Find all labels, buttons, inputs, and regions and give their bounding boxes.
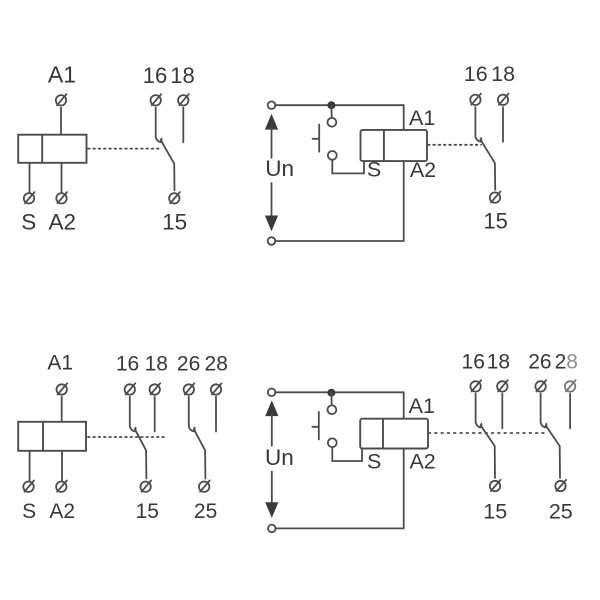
svg-text:18: 18	[145, 353, 168, 376]
contact 2 fixed lead 28	[215, 397, 217, 432]
push button S contact top	[328, 405, 337, 414]
contact moving blade 15	[161, 140, 175, 190]
arrow up (Un)	[265, 114, 278, 130]
supply terminal top	[268, 101, 276, 109]
push button actuator	[312, 412, 319, 440]
terminal 18	[497, 380, 508, 391]
wire coil to A2	[61, 163, 63, 192]
svg-text:16: 16	[143, 63, 167, 88]
terminal A1	[57, 383, 68, 394]
svg-text:25: 25	[194, 500, 217, 523]
wire junction to push button	[330, 393, 332, 406]
wire top rail to coil A1	[403, 105, 405, 130]
svg-text:15: 15	[483, 500, 507, 524]
svg-text:16: 16	[464, 62, 488, 86]
relay coil K2	[18, 422, 86, 451]
svg-text:15: 15	[162, 209, 187, 234]
relay coil K1 (right)	[361, 130, 428, 161]
wire coil to S	[29, 163, 31, 192]
terminal 26	[535, 380, 546, 391]
terminal S	[24, 192, 35, 203]
contact fixed lead 18	[502, 107, 504, 142]
terminal 16	[125, 383, 136, 394]
contact moving blade 15	[480, 139, 495, 189]
wire coil to A2	[61, 451, 63, 481]
push button actuator	[313, 124, 320, 151]
wire coil A2 to bottom rail	[403, 161, 405, 241]
terminal 15	[169, 192, 180, 203]
relay coil K1	[18, 135, 86, 163]
contact fixed lead 16	[475, 107, 481, 142]
contact 2 fixed lead 26	[189, 397, 195, 432]
supply terminal bottom	[268, 237, 276, 245]
terminal 25	[555, 480, 566, 491]
wire arrow to Un	[271, 127, 273, 158]
terminal S	[23, 481, 34, 492]
contact 1 fixed lead 18	[154, 397, 156, 432]
svg-text:S: S	[367, 158, 381, 182]
wire top supply rail	[275, 104, 404, 106]
svg-text:18: 18	[491, 62, 515, 86]
svg-text:16: 16	[462, 350, 485, 373]
svg-text:A2: A2	[409, 449, 435, 473]
svg-text:18: 18	[170, 63, 194, 88]
wire bottom supply rail	[275, 527, 403, 529]
arrow down (Un)	[265, 502, 278, 518]
relay coil K2 (right)	[360, 419, 428, 449]
contact 1 fixed lead 18	[501, 394, 503, 429]
svg-text:26: 26	[528, 350, 551, 373]
wire A1 to coil	[60, 108, 62, 135]
svg-text:A1: A1	[47, 351, 73, 374]
wire bottom supply rail	[275, 240, 404, 242]
terminal 15	[490, 480, 501, 491]
junction node	[327, 101, 335, 109]
terminal 28	[565, 380, 576, 391]
wire A1 to coil	[61, 397, 63, 422]
push button S contact top	[328, 118, 337, 127]
svg-text:16: 16	[116, 353, 139, 376]
contact 1 fixed lead 16	[476, 394, 482, 428]
terminal 26	[184, 383, 195, 394]
terminal A2	[56, 481, 67, 492]
svg-text:18: 18	[487, 350, 510, 373]
svg-text:A1: A1	[48, 62, 76, 88]
wire top rail to coil A1	[403, 392, 405, 418]
contact 1 moving blade 15	[135, 429, 147, 479]
wire coil A2 to bottom rail	[403, 449, 405, 529]
svg-text:28: 28	[205, 353, 228, 376]
terminal 15	[490, 191, 501, 202]
svg-text:Un: Un	[265, 445, 294, 470]
wire arrow to Un	[271, 414, 273, 446]
arrow down (Un)	[265, 216, 278, 232]
contact 2 moving blade 25	[546, 425, 560, 478]
mechanical linkage (dotted)	[88, 148, 161, 150]
supply terminal top	[268, 389, 276, 397]
junction node	[327, 389, 335, 397]
svg-text:S: S	[367, 449, 381, 473]
contact 2 fixed lead 28	[569, 394, 571, 429]
contact fixed lead 16	[156, 108, 162, 143]
terminal 16	[151, 94, 162, 105]
terminal 25	[199, 481, 210, 492]
mechanical linkage (dotted)	[88, 436, 168, 438]
terminal 16	[470, 380, 481, 391]
terminal 16	[470, 94, 481, 105]
terminal A1	[56, 94, 67, 105]
wire push button to S	[332, 160, 364, 174]
svg-text:15: 15	[483, 209, 507, 234]
svg-text:A1: A1	[409, 394, 435, 418]
svg-text:15: 15	[136, 500, 159, 523]
push button S contact bottom	[328, 438, 337, 447]
wire push button to S	[332, 447, 362, 461]
terminal 18	[150, 383, 161, 394]
terminal 18	[178, 94, 189, 105]
terminal 15	[140, 481, 151, 492]
wire top supply rail	[275, 391, 404, 393]
svg-text:25: 25	[549, 500, 573, 524]
terminal 28	[211, 383, 222, 394]
wire Un to arrow	[271, 472, 273, 503]
svg-text:26: 26	[177, 353, 200, 376]
svg-text:A1: A1	[409, 106, 435, 130]
contact 2 fixed lead 26	[541, 394, 547, 428]
terminal A2	[56, 192, 67, 203]
wire Un to arrow	[271, 183, 273, 216]
supply terminal bottom	[268, 525, 276, 533]
svg-text:A2: A2	[49, 209, 77, 234]
arrow up (Un)	[265, 400, 278, 416]
mechanical linkage (dotted)	[428, 144, 481, 146]
contact 1 fixed lead 16	[130, 397, 136, 432]
contact 2 moving blade 25	[194, 429, 206, 479]
wire junction to push button	[330, 105, 332, 118]
svg-text:S: S	[22, 500, 36, 523]
push button S contact bottom	[328, 151, 337, 160]
svg-text:A2: A2	[49, 500, 75, 523]
svg-text:A2: A2	[410, 158, 436, 182]
terminal 18	[498, 94, 509, 105]
svg-text:28: 28	[555, 350, 578, 373]
mechanical linkage (dotted)	[429, 432, 546, 434]
svg-text:S: S	[21, 209, 36, 234]
svg-text:Un: Un	[265, 156, 294, 181]
wire coil to S	[29, 451, 31, 481]
contact 1 moving blade 15	[481, 425, 495, 478]
contact fixed lead 18	[182, 108, 184, 143]
